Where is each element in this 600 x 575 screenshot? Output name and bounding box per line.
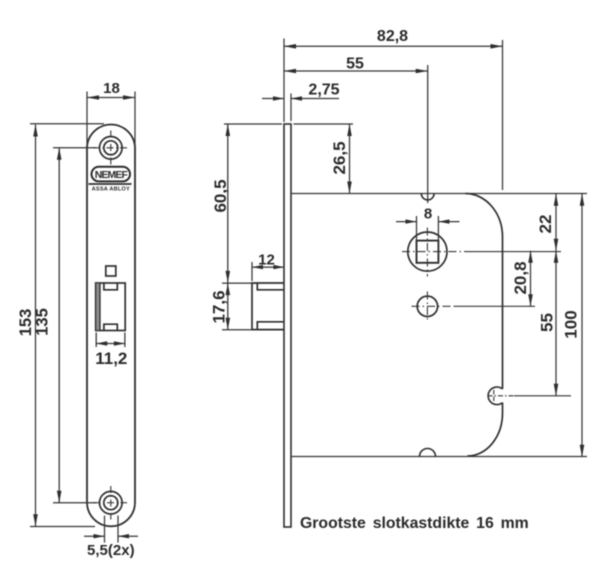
svg-text:8: 8: [424, 206, 432, 223]
dimension 22: [555, 194, 557, 251]
svg-text:18: 18: [103, 80, 120, 97]
faceplate side bar: [284, 124, 291, 527]
lock case top-right corner: [466, 194, 503, 238]
right notch center tick: [488, 395, 515, 397]
dimension 55 right: [555, 251, 557, 396]
right edge keyhole notch: [488, 387, 502, 405]
svg-text:153: 153: [17, 309, 35, 337]
top edge notch: [421, 194, 434, 200]
svg-text:11,2: 11,2: [95, 349, 127, 368]
lock case right edge upper: [502, 237, 504, 389]
top screw hole centerlines: [93, 131, 129, 166]
svg-text:22: 22: [536, 215, 555, 234]
dimension 2.75: [262, 94, 339, 122]
dimension 135: [53, 148, 96, 503]
right notch center vertical dash: [493, 390, 495, 402]
lock case bottom-right corner: [468, 413, 503, 456]
svg-text:2,75: 2,75: [308, 82, 339, 99]
svg-text:ASSA ABLOY: ASSA ABLOY: [92, 187, 130, 193]
svg-text:20,8: 20,8: [511, 261, 530, 294]
dimension 100: [581, 194, 583, 457]
faceplate top extension line: [224, 123, 282, 125]
lower hole: [417, 296, 437, 316]
svg-text:26,5: 26,5: [330, 141, 349, 174]
svg-text:55: 55: [538, 313, 557, 332]
dimension 55 top: [284, 65, 428, 203]
dimension 60,5: [227, 124, 229, 283]
dimension 8: [396, 216, 460, 256]
latch cutout inner edge: [99, 283, 101, 331]
svg-text:Grootste slotkastdikte 16 mm: Grootste slotkastdikte 16 mm: [300, 515, 529, 532]
NEMEF logo oval: [92, 167, 131, 182]
spindle square: [417, 241, 439, 263]
latch bolt side view: [252, 283, 284, 330]
dimension 12: [252, 262, 284, 281]
bottom screw hole centerlines: [94, 486, 128, 520]
latch cutout top notch: [104, 283, 117, 290]
dimension 26,5: [349, 124, 351, 194]
lower hole centerlines: [412, 292, 536, 322]
svg-text:12: 12: [258, 252, 275, 269]
lock case bottom edge and right extension: [291, 456, 587, 458]
latch bolt inner steps: [257, 283, 284, 290]
svg-text:135: 135: [34, 308, 52, 336]
svg-text:100: 100: [562, 310, 581, 338]
top screw hole: [100, 137, 123, 160]
svg-text:17,6: 17,6: [210, 290, 229, 323]
lock case top edge and right extension: [291, 193, 587, 195]
svg-text:55: 55: [346, 56, 364, 73]
dimension 82.8: [284, 39, 503, 191]
bottom screw hole: [100, 491, 123, 514]
latch cutout shaded strip: [96, 284, 99, 330]
dimension 11,2: [96, 333, 126, 348]
latch cutout outline: [96, 283, 126, 331]
bottom edge notch: [420, 449, 436, 457]
dimension 18: [87, 92, 135, 151]
svg-text:60,5: 60,5: [211, 179, 230, 212]
latch cutout bottom notch: [104, 324, 117, 330]
dimension 153: [30, 124, 104, 527]
dimension 20,8: [530, 251, 532, 306]
spindle follower circle: [408, 232, 447, 271]
svg-text:82,8: 82,8: [377, 28, 408, 45]
dimension 5,5(2x): [84, 516, 138, 543]
svg-text:NEMEF: NEMEF: [95, 170, 128, 181]
spindle centerlines: [402, 228, 561, 277]
logo underline: [89, 183, 132, 185]
small square hole: [106, 266, 116, 276]
dimension 17,6: [222, 283, 257, 330]
svg-text:5,5(2x): 5,5(2x): [87, 542, 135, 559]
faceplate outline (front view): [87, 125, 135, 527]
lock case right edge lower: [502, 403, 504, 413]
